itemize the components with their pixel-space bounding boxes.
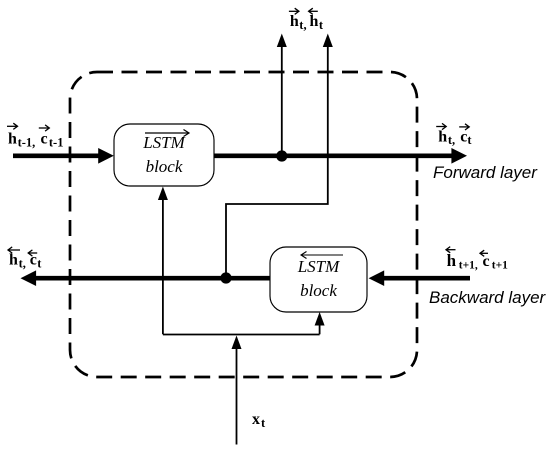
svg-text:c: c (30, 252, 37, 269)
wire: input distribution horizontal (163, 334, 320, 336)
svg-text:t,: t, (299, 18, 306, 32)
svg-text:h: h (290, 13, 299, 30)
node: junction on backward line (220, 272, 231, 283)
svg-text:h: h (9, 252, 18, 269)
wire: x_t input (232, 336, 242, 445)
svg-text:t+1,: t+1, (459, 259, 478, 271)
node: junction on forward line (276, 150, 287, 161)
svg-text:t-1: t-1 (49, 135, 64, 149)
svg-text:h: h (8, 131, 17, 148)
svg-text:block: block (146, 157, 183, 176)
label: h_t, c_t (backward output) (8, 247, 42, 270)
svg-text:c: c (460, 128, 467, 145)
wire: forward input line (13, 148, 114, 164)
wire: forward hidden state up to top arrow (277, 34, 287, 157)
label: h_t-1, c_t-1 (forward input) (7, 123, 63, 149)
svg-text:t: t (467, 133, 472, 147)
svg-text:t: t (37, 256, 42, 270)
wire: backward output line (21, 270, 271, 286)
svg-text:LSTM: LSTM (142, 133, 185, 152)
svg-text:t,: t, (19, 256, 26, 270)
svg-text:t: t (261, 416, 266, 430)
svg-text:h: h (438, 128, 447, 145)
LSTM block U2 (backward) (270, 247, 367, 312)
svg-text:h: h (310, 13, 319, 30)
svg-text:block: block (300, 281, 337, 300)
svg-text:t,: t, (448, 133, 455, 147)
label: h_t, h_t (top outputs) (289, 8, 324, 32)
label: h_t, c_t (forward output) (436, 123, 472, 147)
wire: input to forward block (158, 187, 168, 335)
svg-text:t-1,: t-1, (18, 135, 36, 149)
svg-text:t+1: t+1 (492, 259, 508, 271)
svg-text:Backward layer: Backward layer (429, 288, 547, 307)
right-arrow accent over forward LSTM (145, 130, 189, 137)
svg-text:h: h (447, 251, 457, 270)
svg-text:Forward layer: Forward layer (433, 163, 538, 182)
label: h_t+1, c_t+1 (backward input) (446, 247, 508, 272)
left-arrow accent over backward LSTM (301, 252, 343, 259)
LSTM block U1 (forward) (114, 124, 214, 186)
wire: forward output line (214, 148, 467, 164)
wire: backward input line (369, 270, 470, 286)
svg-text:c: c (41, 131, 48, 148)
svg-text:t: t (319, 18, 324, 32)
label: x_t (input) (252, 411, 266, 430)
svg-text:LSTM: LSTM (297, 257, 340, 276)
svg-text:x: x (252, 411, 260, 428)
module boundary (dashed box) (70, 72, 417, 377)
wire: backward hidden state up to top arrow (226, 34, 333, 279)
wire: input to backward block (315, 312, 325, 334)
